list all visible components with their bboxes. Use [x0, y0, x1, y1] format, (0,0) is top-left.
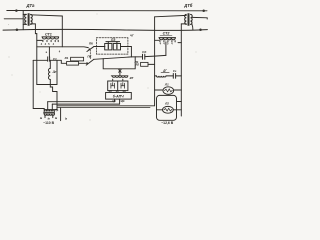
svg-text:Сз: Сз [173, 69, 177, 73]
svg-text:ДТб: ДТб [183, 3, 193, 8]
svg-text:СТ1: СТ1 [45, 32, 52, 36]
svg-text:б-АПЧ: б-АПЧ [113, 95, 124, 99]
svg-text:ДТа: ДТа [26, 3, 36, 8]
svg-text:Л1: Л1 [134, 60, 139, 64]
svg-text:ДГ: ДГ [162, 69, 167, 73]
svg-text:Л1: Л1 [164, 83, 169, 87]
svg-text:СТ2: СТ2 [163, 32, 171, 36]
svg-text:Сб: Сб [142, 50, 146, 54]
svg-text:Л2: Л2 [164, 102, 169, 106]
svg-text:~110 В: ~110 В [43, 121, 54, 125]
svg-text:ЧГ: ЧГ [130, 33, 134, 37]
svg-text:С1: С1 [53, 57, 57, 61]
svg-text:Др: Др [52, 70, 57, 74]
svg-text:Тр: Тр [55, 109, 58, 112]
svg-text:ЦЧ: ЦЧ [112, 100, 116, 103]
svg-text:~12,6 В: ~12,6 В [161, 121, 174, 125]
svg-text:ЦМ: ЦМ [121, 100, 125, 103]
svg-text:ЦЗ: ЦЗ [109, 90, 113, 93]
svg-text:R1: R1 [65, 56, 69, 60]
svg-text:ВТ: ВТ [130, 76, 134, 80]
svg-text:ЦХ: ЦХ [123, 90, 127, 93]
svg-text:ЛЗ: ЛЗ [110, 38, 116, 42]
